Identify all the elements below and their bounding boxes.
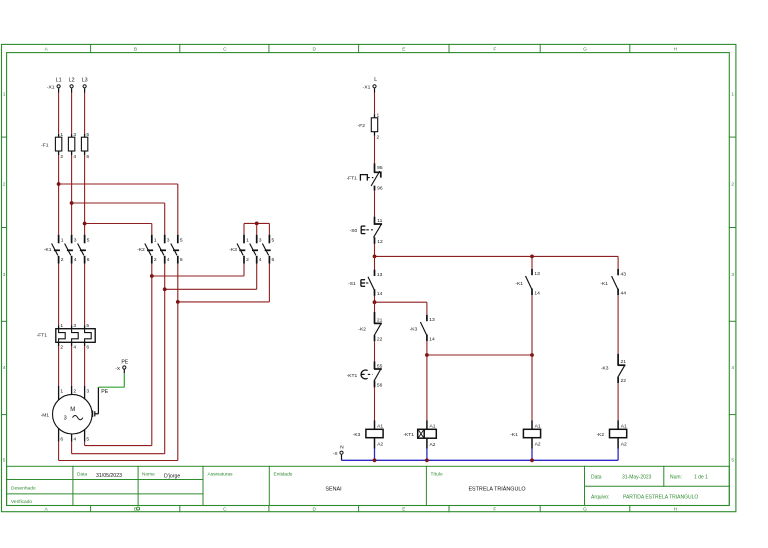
junction node3b: [530, 353, 534, 357]
overload contact FT1 95-96: [374, 163, 376, 172]
wire K1 to FT1: [58, 264, 60, 326]
svg-text:-S0: -S0: [350, 228, 358, 234]
contact K1 43-44: [617, 269, 619, 275]
wire K2 pin6 to K3 pin6: [178, 301, 270, 303]
svg-text:-K2: -K2: [596, 432, 604, 438]
contactor K1 power contacts: [58, 235, 60, 244]
svg-text:1: 1: [60, 388, 63, 394]
wire phase down to fuse F1: [71, 93, 73, 134]
svg-text:PE: PE: [121, 359, 128, 365]
svg-text:C: C: [223, 47, 227, 53]
svg-text:3: 3: [73, 132, 76, 138]
svg-text:A2: A2: [621, 442, 627, 448]
contact K3 13-14: [426, 315, 428, 321]
svg-text:A1: A1: [621, 424, 627, 430]
junction N K3 coil: [373, 458, 377, 462]
svg-text:2: 2: [60, 345, 63, 351]
svg-text:6: 6: [180, 257, 183, 263]
coil K3: [374, 420, 376, 429]
svg-text:L1: L1: [56, 78, 62, 84]
junction N K1 coil: [530, 458, 534, 462]
wire FT1 to S0: [374, 191, 376, 217]
svg-text:6: 6: [272, 257, 275, 263]
wire node2 branch to K3 column: [375, 301, 427, 303]
svg-text:44: 44: [621, 290, 627, 296]
svg-text:-K1: -K1: [600, 281, 608, 287]
svg-text:-KT1: -KT1: [403, 432, 414, 438]
svg-text:2: 2: [61, 257, 64, 263]
svg-text:Arquivo:: Arquivo:: [591, 495, 609, 501]
svg-text:L: L: [374, 77, 377, 83]
svg-text:-K2: -K2: [137, 247, 145, 253]
wire L3 fuse to K1 pole3: [84, 155, 86, 235]
svg-text:43: 43: [621, 271, 627, 277]
svg-text:A2: A2: [430, 442, 436, 448]
motor M1: [53, 394, 93, 434]
frame row tick: [2, 136, 7, 138]
junction star bridge: [255, 222, 259, 226]
frame row tick: [2, 227, 7, 229]
svg-text:A2: A2: [377, 442, 383, 448]
timed contact KT1 55-56: [374, 361, 376, 369]
svg-text:3: 3: [3, 272, 6, 278]
svg-text:2: 2: [731, 182, 734, 188]
svg-text:4: 4: [73, 345, 76, 351]
S1 actuator: [360, 280, 362, 287]
svg-text:-KT1: -KT1: [347, 373, 358, 379]
svg-text:1: 1: [61, 238, 64, 244]
svg-text:F: F: [493, 507, 496, 513]
svg-text:-S1: -S1: [348, 281, 356, 287]
wire K2 pin4 to K3 pin4: [165, 288, 257, 290]
svg-text:2: 2: [73, 388, 76, 394]
svg-text:95: 95: [377, 165, 383, 171]
pushbutton S0 11-12: [375, 217, 383, 224]
wire F2 to FT1 contact: [374, 136, 376, 164]
junction L3 branch: [83, 222, 87, 226]
terminal -X PE: [123, 366, 126, 369]
junction L2 branch: [70, 201, 74, 205]
pushbutton S1 13-14: [374, 256, 376, 269]
wire star bridge over K3: [244, 222, 269, 224]
svg-text:31-May-2023: 31-May-2023: [622, 475, 652, 481]
svg-text:31/05/2023: 31/05/2023: [96, 473, 122, 479]
svg-text:D: D: [312, 47, 316, 53]
svg-text:2: 2: [60, 154, 63, 160]
junction node K1 column: [530, 255, 534, 259]
svg-text:4: 4: [3, 365, 6, 371]
svg-text:3: 3: [167, 238, 170, 244]
svg-text:-FT1: -FT1: [37, 333, 48, 339]
svg-text:22: 22: [621, 378, 627, 384]
frame column tick: [539, 44, 541, 52]
svg-text:H: H: [674, 47, 678, 53]
svg-text:-X1: -X1: [363, 85, 371, 91]
wire motor pin6 loop to K2 pin6: [58, 429, 60, 442]
svg-text:21: 21: [621, 359, 627, 365]
coil KT1 (timer): [426, 420, 428, 429]
svg-text:G: G: [583, 507, 587, 513]
svg-text:5: 5: [731, 458, 734, 464]
svg-text:G: G: [583, 47, 587, 53]
contactor K2 power contacts: [151, 235, 153, 244]
svg-text:4: 4: [731, 365, 734, 371]
svg-text:Assinaturas: Assinaturas: [208, 472, 234, 478]
svg-text:3: 3: [73, 323, 76, 329]
svg-text:5: 5: [87, 238, 90, 244]
wire phase down to fuse F1: [84, 93, 86, 134]
wire to K3 NC: [617, 295, 619, 354]
svg-text:-K1: -K1: [515, 281, 523, 287]
svg-text:-K3: -K3: [229, 247, 237, 253]
frame column tick: [358, 44, 360, 52]
frame row tick: [2, 414, 7, 416]
svg-text:3: 3: [259, 238, 262, 244]
wire L1 fuse to K1 pole1: [58, 155, 60, 235]
svg-text:C: C: [223, 507, 227, 513]
junction N KT1 coil: [425, 458, 429, 462]
wire branch L1 to K2 pin5: [59, 183, 178, 185]
svg-text:Entidade: Entidade: [274, 472, 293, 478]
svg-text:Data: Data: [591, 475, 602, 481]
wire K1 to FT1: [71, 264, 73, 326]
svg-text:13: 13: [534, 271, 540, 277]
svg-text:D'jorge: D'jorge: [164, 474, 180, 480]
svg-text:PE: PE: [101, 389, 108, 395]
svg-text:14: 14: [534, 290, 540, 296]
svg-text:1: 1: [377, 113, 380, 119]
terminal -X1 L3: [83, 85, 86, 88]
frame column tick: [448, 44, 450, 52]
contactor K3 power contacts: [243, 235, 245, 244]
wire branch L2 to K2 pin3: [72, 202, 165, 204]
wire L to F2: [374, 93, 376, 115]
svg-text:A1: A1: [535, 424, 541, 430]
svg-text:2: 2: [3, 182, 6, 188]
wire K1 to FT1: [84, 264, 86, 326]
svg-text:L3: L3: [82, 78, 88, 84]
svg-text:Data: Data: [77, 472, 87, 478]
wire KT1 contact to K3 coil: [374, 387, 376, 420]
svg-text:14: 14: [429, 336, 435, 342]
svg-text:6: 6: [87, 257, 90, 263]
svg-text:1: 1: [60, 323, 63, 329]
svg-text:14: 14: [377, 291, 383, 297]
svg-text:3: 3: [74, 238, 77, 244]
contact K2 21-22: [374, 302, 376, 312]
wire K3 column down: [426, 302, 428, 315]
wire K3 contact to node3: [426, 341, 428, 355]
terminal -X1 L2: [70, 85, 73, 88]
S0 actuator: [360, 226, 362, 234]
coil K2: [617, 420, 619, 429]
svg-text:M: M: [70, 407, 75, 413]
KT1 timer actuator (semicircle): [361, 370, 368, 379]
svg-text:96: 96: [377, 186, 383, 192]
svg-text:4: 4: [73, 437, 76, 443]
svg-text:3: 3: [731, 272, 734, 278]
frame column tick: [90, 44, 92, 52]
svg-text:5: 5: [272, 238, 275, 244]
svg-text:-K2: -K2: [358, 326, 366, 332]
svg-text:B: B: [134, 47, 137, 53]
svg-text:13: 13: [429, 317, 435, 323]
motor PE terminal: [92, 411, 94, 418]
svg-text:1: 1: [3, 92, 6, 98]
svg-text:12: 12: [377, 239, 383, 245]
wire FT1 to motor pin2: [71, 342, 73, 346]
overload relay FT1: [56, 329, 95, 343]
svg-text:2: 2: [377, 134, 380, 140]
svg-text:D: D: [312, 507, 316, 513]
wire PE green: [98, 386, 124, 388]
wire branch L3 to K2 pin1: [85, 223, 152, 225]
terminal -X N: [340, 451, 343, 454]
svg-text:-K1: -K1: [510, 432, 518, 438]
wire motor pin5 loop to K2 pin2: [84, 430, 86, 442]
svg-text:11: 11: [377, 218, 382, 224]
svg-text:SENAI: SENAI: [325, 487, 341, 493]
svg-text:-K1: -K1: [44, 247, 52, 253]
junction K2 pin2: [150, 274, 154, 278]
svg-text:-F1: -F1: [41, 142, 49, 148]
svg-text:-X1: -X1: [47, 85, 55, 91]
svg-text:5: 5: [180, 238, 183, 244]
svg-text:-K3: -K3: [601, 365, 609, 371]
svg-text:13: 13: [377, 272, 383, 278]
title block grid: [7, 466, 730, 505]
svg-text:-X: -X: [115, 366, 121, 372]
svg-text:3: 3: [86, 388, 89, 394]
svg-text:22: 22: [377, 336, 383, 342]
wire S1 to node2: [374, 296, 376, 302]
svg-text:E: E: [402, 507, 405, 513]
svg-text:1: 1: [246, 238, 249, 244]
svg-text:N: N: [340, 445, 344, 451]
svg-text:A2: A2: [535, 442, 541, 448]
svg-text:1: 1: [154, 238, 157, 244]
svg-text:56: 56: [377, 382, 383, 388]
frame inner border: [7, 53, 730, 506]
wire K1-43 column down: [617, 256, 619, 269]
wire FT1 to motor pin1: [58, 342, 60, 346]
svg-text:-FT1: -FT1: [346, 176, 357, 182]
svg-text:ESTRELA TRIÂNGULO: ESTRELA TRIÂNGULO: [468, 486, 525, 493]
wire node3 to K1 column: [427, 354, 532, 356]
svg-text:Desenhado: Desenhado: [11, 486, 36, 492]
fuse F2: [374, 114, 376, 135]
wire node3 to KT1 coil: [426, 355, 428, 420]
junction node S1 bottom: [373, 300, 377, 304]
svg-text:5: 5: [86, 132, 89, 138]
FT1 thermal actuator: [360, 175, 367, 181]
svg-text:-F2: -F2: [358, 123, 366, 129]
wire L2 fuse to K1 pole2: [71, 155, 73, 235]
svg-text:21: 21: [377, 317, 383, 323]
svg-text:E: E: [402, 47, 405, 53]
coil K1: [531, 420, 533, 429]
svg-text:5: 5: [3, 458, 6, 464]
wire K1 column down: [531, 256, 533, 268]
svg-text:PARTIDA ESTRELA TRIANGULO: PARTIDA ESTRELA TRIANGULO: [623, 495, 698, 501]
frame row tick: [2, 320, 7, 322]
svg-text:55: 55: [377, 363, 383, 369]
fuse F1: [58, 134, 60, 155]
junction L1 branch: [57, 182, 61, 186]
svg-text:-M1: -M1: [41, 413, 50, 419]
wire K3 NC to K2 coil: [617, 383, 619, 420]
contact K1 13-14: [531, 269, 533, 275]
svg-text:1 de 1: 1 de 1: [694, 475, 708, 481]
svg-text:5: 5: [86, 437, 89, 443]
wire phase down to fuse F1: [58, 93, 60, 134]
svg-text:Verificado: Verificado: [11, 499, 32, 505]
wire FT1 to motor pin3: [84, 342, 86, 346]
junction node3: [425, 353, 429, 357]
frame column tick: [268, 44, 270, 52]
terminal -X1 L1: [57, 85, 60, 88]
junction node S1 top: [373, 255, 377, 259]
svg-text:2: 2: [154, 257, 157, 263]
junction K2 pin4: [163, 287, 167, 291]
junction K2 pin6: [176, 300, 180, 304]
svg-text:1: 1: [60, 132, 63, 138]
svg-text:4: 4: [167, 257, 170, 263]
svg-text:1: 1: [731, 92, 734, 98]
svg-text:6: 6: [60, 437, 63, 443]
svg-text:-K3: -K3: [353, 432, 361, 438]
svg-text:-K3: -K3: [410, 327, 418, 333]
svg-text:F: F: [493, 47, 496, 53]
svg-text:2: 2: [246, 257, 249, 263]
svg-text:6: 6: [86, 345, 89, 351]
svg-text:Num:: Num:: [670, 475, 682, 481]
wire neutral bus: [342, 459, 619, 461]
fold mark: [137, 507, 140, 510]
svg-text:4: 4: [259, 257, 262, 263]
wire K2 pin2 to K3 pin2: [152, 275, 244, 277]
wire K2 contact to KT1 contact: [374, 341, 376, 361]
wire K1 contact to coil: [531, 295, 533, 420]
wire control top rail: [375, 255, 619, 257]
frame column tick: [629, 44, 631, 52]
svg-text:A1: A1: [430, 424, 436, 430]
svg-text:4: 4: [74, 257, 77, 263]
svg-text:4: 4: [73, 154, 76, 160]
wire motor pin4 loop to K2 pin4: [71, 434, 73, 442]
svg-text:-X: -X: [333, 451, 339, 457]
contact K3 21-22: [617, 354, 619, 365]
svg-text:L2: L2: [69, 78, 75, 84]
wire S0 to node: [374, 244, 376, 257]
terminal -X1 L: [373, 85, 376, 88]
svg-text:3: 3: [64, 416, 67, 422]
frame column tick: [179, 44, 181, 52]
svg-text:A1: A1: [377, 424, 383, 430]
svg-text:Título: Título: [431, 472, 443, 478]
svg-text:Nome: Nome: [142, 472, 155, 478]
svg-text:6: 6: [86, 154, 89, 160]
svg-text:H: H: [674, 507, 678, 513]
svg-text:5: 5: [86, 323, 89, 329]
